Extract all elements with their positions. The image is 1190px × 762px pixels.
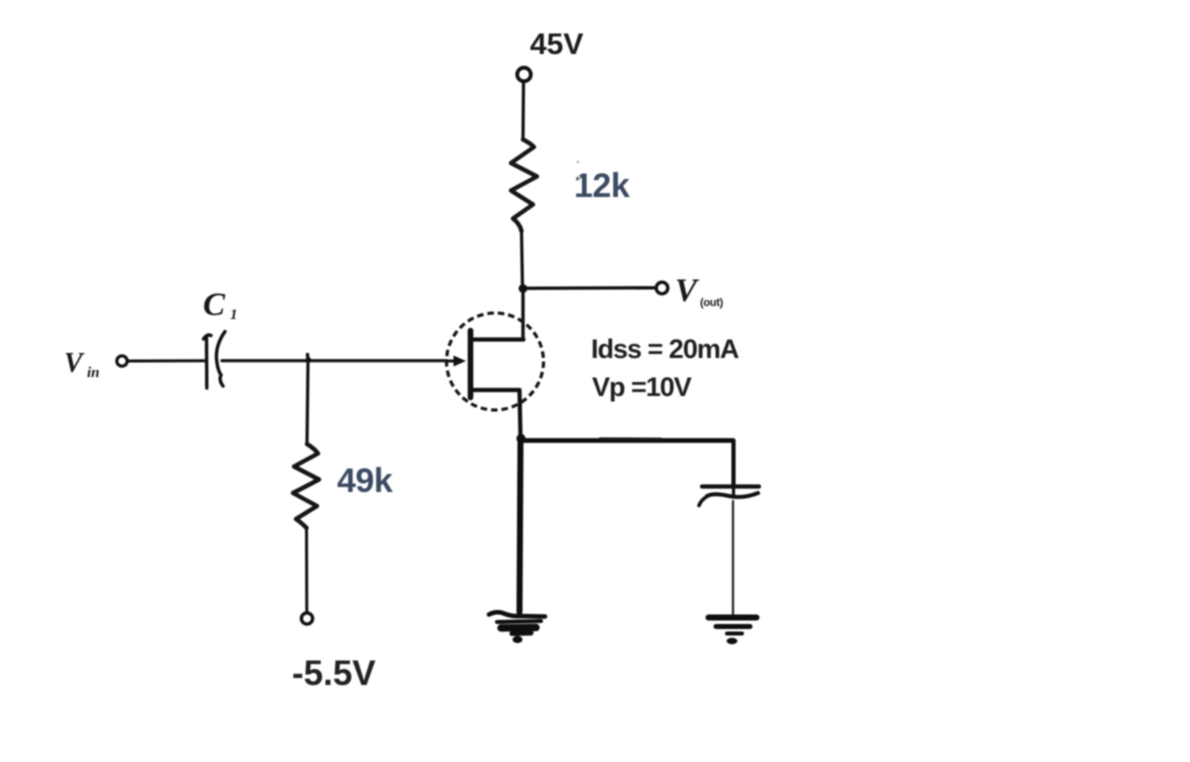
capacitor C1 right plate [216, 332, 225, 387]
terminal Vin [117, 356, 127, 366]
svg-text:12k: 12k [574, 167, 630, 205]
terminal Vout [656, 282, 668, 294]
terminal -5.5V [301, 613, 312, 624]
JFET body circle (dashed) [447, 313, 544, 410]
svg-text:45V: 45V [530, 28, 583, 61]
wire: Vin terminal to capacitor C1 [128, 359, 204, 362]
node: source junction [516, 434, 525, 443]
wire: bypass capacitor to right ground (thin) [732, 501, 734, 616]
resistor 12k (zigzag) [511, 140, 537, 232]
svg-text:Idss = 20mA: Idss = 20mA [591, 334, 739, 364]
wire: drain node down into JFET [521, 289, 524, 340]
node: drain junction [519, 284, 528, 293]
junction tick at gate/bias node [306, 355, 310, 362]
wire: resistor 49k to -5.5V terminal [305, 528, 308, 612]
wire: source node to bypass capacitor (thick horizontal) [521, 438, 733, 443]
JFET source lead (inside circle) [471, 390, 521, 438]
JFET gate arrow [447, 360, 456, 363]
svg-text:C: C [203, 287, 226, 323]
svg-text:-5.5V: -5.5V [292, 654, 376, 693]
terminal: 45V supply [517, 68, 531, 82]
svg-text:(out): (out) [700, 297, 724, 309]
wire: drain node to Vout terminal [523, 286, 655, 290]
JFET channel bar [468, 331, 474, 398]
ground (right) [709, 615, 757, 621]
JFET drain lead (inside circle) [471, 337, 524, 341]
svg-text:49k: 49k [337, 462, 393, 500]
wire: source node to left ground (thick) [520, 438, 521, 612]
wire: resistor to drain node [522, 231, 523, 288]
svg-text:in: in [87, 365, 100, 381]
wire: junction down to resistor 49k [307, 361, 308, 444]
faint speckles [576, 160, 579, 163]
wire: supply to resistor 12k [521, 82, 525, 140]
capacitor C1 left plate [204, 335, 212, 388]
wire: down to bypass capacitor [731, 441, 735, 488]
bypass capacitor top plate [702, 484, 759, 488]
wire: capacitor C1 to JFET gate [222, 359, 447, 362]
svg-text:V: V [675, 273, 700, 309]
svg-text:V: V [64, 348, 85, 379]
resistor 49k (zigzag) [293, 444, 319, 528]
svg-text:Vp =10V: Vp =10V [592, 372, 692, 402]
ground (left, hand-drawn) [489, 612, 545, 616]
svg-text:1: 1 [230, 307, 238, 323]
bypass capacitor bottom plate (curved) [707, 493, 758, 497]
